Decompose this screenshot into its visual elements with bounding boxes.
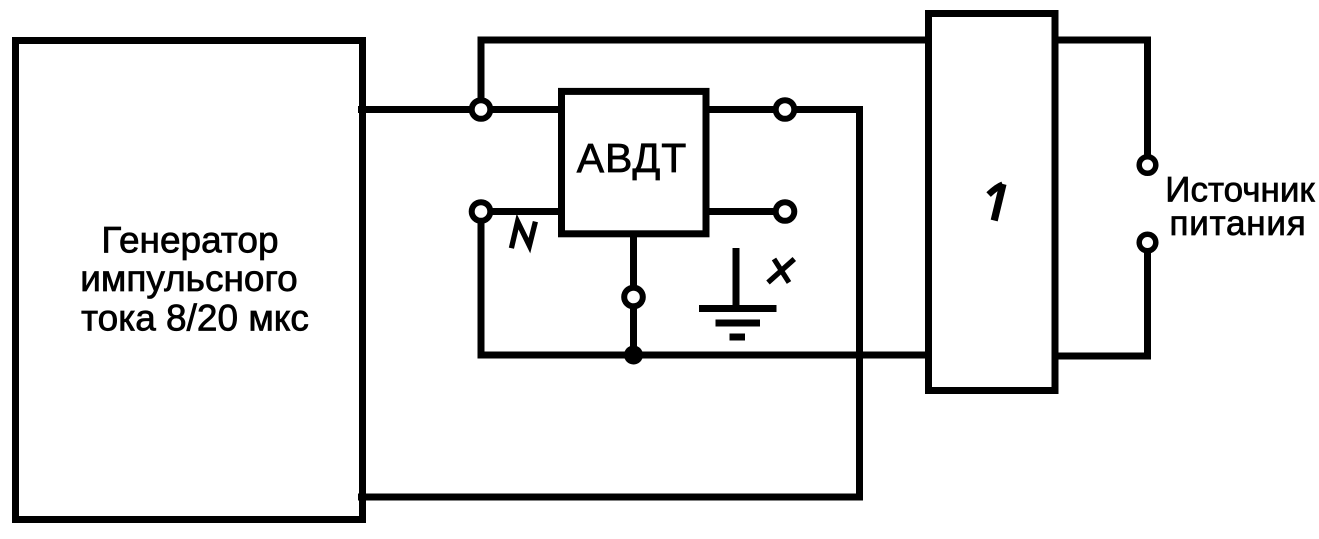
wire: box 1 bottom-right to supply terminal <box>1055 243 1148 357</box>
wire: generator right pin to АВДТ left (L line) <box>358 106 562 113</box>
junction dot <box>624 346 643 365</box>
ground symbol <box>699 248 777 337</box>
wire: right vertical drop <box>856 106 863 497</box>
svg-text:АВДТ: АВДТ <box>577 135 688 181</box>
wire: box 1 top-right to supply terminal <box>1055 40 1148 165</box>
АВДТ box <box>562 91 707 233</box>
wire: АВДТ bottom pin down to junction <box>630 234 637 355</box>
label X <box>768 259 794 283</box>
terminal circle at АВДТ bottom-right pin <box>776 202 795 221</box>
supply terminal circle bottom <box>1139 234 1156 251</box>
wire: N terminal down and across to box 1 (bottom mid run) <box>481 212 928 356</box>
svg-text:тока 8/20 мкс: тока 8/20 мкс <box>81 298 309 339</box>
wire: АВДТ top-right pin to right vertical <box>706 106 860 113</box>
generator label "Генератор импульсного тока 8/20 мкс" <box>80 220 309 339</box>
wire: generator bottom pin to right vertical <box>358 494 863 501</box>
svg-text:питания: питания <box>1169 204 1306 243</box>
terminal circle N <box>472 202 491 221</box>
label "Источник питания" <box>1165 171 1315 243</box>
node A junction circle <box>472 100 491 119</box>
label N <box>511 222 535 249</box>
terminal circle on АВДТ bottom wire <box>624 288 643 307</box>
svg-text:Генератор: Генератор <box>101 220 278 261</box>
terminal circle at АВДТ top-right wire <box>776 100 795 119</box>
wire: node A up and across to box 1 (top run) <box>481 40 928 110</box>
wire: АВДТ bottom-right pin <box>706 208 785 215</box>
generator box <box>16 41 363 520</box>
box 1 <box>929 14 1056 391</box>
label 1 <box>994 184 1003 221</box>
svg-text:импульсного: импульсного <box>80 258 297 299</box>
wire: N terminal to АВДТ left <box>481 208 562 215</box>
supply terminal circle top <box>1139 157 1156 174</box>
